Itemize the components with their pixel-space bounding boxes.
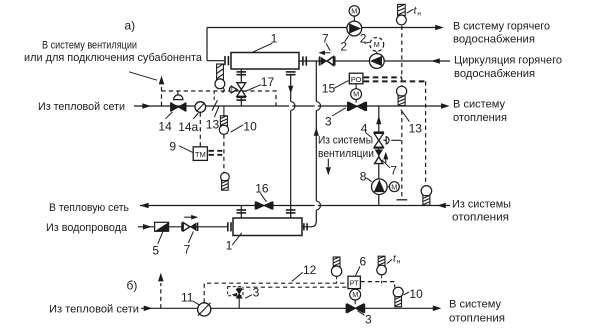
svg-text:а): а): [125, 18, 136, 32]
regulator 15 (PO box): [349, 73, 363, 84]
wire: heater-2 top-right port stub: [290, 206, 292, 219]
wire: section b main line (y=308.3): [141, 307, 433, 309]
svg-text:Из тепловой сети: Из тепловой сети: [38, 101, 125, 113]
svg-text:или для подключения субабонент: или для подключения субабонента: [24, 52, 203, 64]
wire: dashed branch up (section b): [160, 283, 162, 308]
svg-text:16: 16: [255, 182, 269, 196]
pump 2a (circulation) with dashed motor: [370, 38, 384, 52]
node: up arrow on riser (from heater-2): [314, 127, 319, 135]
wire: dashed outdoor-sensor impulse line (x=401.8): [401, 26, 403, 86]
thermometer (left of heater-1): [217, 64, 224, 80]
node: arrow to heating system (section b): [433, 306, 442, 312]
node: down arrow below ventilation text: [326, 167, 331, 175]
wire: heating-network supply main line (y=106): [134, 105, 442, 107]
node: down arrow on heater-1 return drop: [288, 86, 293, 94]
svg-text:3: 3: [253, 286, 260, 300]
node: arrow from DHW circulation: [431, 58, 440, 64]
orifice 14a: [195, 102, 206, 113]
node: flange above valve 4: [374, 131, 384, 133]
node: up arrow on dashed branch (section b): [158, 273, 164, 282]
svg-text:отопления: отопления: [453, 112, 507, 124]
water meter 5: [155, 222, 169, 231]
stem to valve 3: [355, 100, 357, 103]
svg-text:7: 7: [322, 31, 329, 45]
actuator stem regulator 15: [355, 84, 357, 89]
svg-text:М: М: [353, 90, 359, 99]
svg-text:М: М: [351, 7, 357, 16]
valve 14 (pressure regulator) with diaphragm: [170, 102, 172, 111]
node: flange on heater-2 top-left: [237, 209, 247, 211]
valve 3 (heating control valve): [347, 102, 349, 111]
thermometer (supply, in dashed loop): [220, 116, 227, 126]
wire: return line to heating network (y=205.5): [140, 205, 450, 207]
svg-text:В систему горячего: В систему горячего: [453, 21, 550, 33]
wire: valve 4 impulse connection to dashed line: [391, 139, 401, 141]
outdoor temperature sensor t_n: [398, 4, 406, 15]
svg-text:водоснабжения: водоснабжения: [454, 68, 535, 80]
leader to t_n label: [407, 9, 414, 13]
three-way valve 17: [237, 83, 246, 90]
wire: dashed impulse line of regulator 14: [162, 91, 277, 106]
wire: dashed branch to ventilation system (x=161.5): [161, 84, 163, 106]
node: sampling tick on supply main: [212, 100, 217, 111]
valve 3 (section b control valve): [345, 304, 347, 313]
wire: stub from small valve 3 to main line: [238, 298, 240, 308]
valve 4 (pressure regulator on branch): [374, 133, 383, 140]
wire: heater-1 left port stub: [207, 60, 224, 62]
regulator 6 (PT box): [348, 276, 360, 288]
node: arrow up to ventilation system: [159, 76, 165, 85]
wire: DHW supply top line (y=27.5): [207, 27, 436, 29]
svg-text:10: 10: [409, 287, 423, 301]
svg-text:отопления: отопления: [452, 212, 509, 224]
svg-text:ТМ: ТМ: [195, 150, 206, 159]
wire: stem to valve 3 (section b): [354, 300, 356, 304]
check valve 7 (cold water): [181, 223, 183, 232]
motor actuator of valve 3: [351, 89, 362, 100]
svg-text:РО: РО: [351, 75, 362, 84]
svg-text:н: н: [417, 11, 421, 18]
wire: hop of return drop pipe over supply main: [289, 101, 292, 110]
svg-text:2: 2: [340, 40, 347, 54]
svg-text:М: М: [352, 290, 358, 299]
thermometer (return, to heat meter): [221, 173, 230, 182]
node: flow arrow on supply main after inlet text: [142, 103, 151, 109]
svg-text:Циркуляция горячего: Циркуляция горячего: [454, 55, 562, 67]
svg-text:13: 13: [409, 121, 423, 135]
wire: hop of riser over supply main: [315, 101, 318, 110]
svg-text:Из системы: Из системы: [452, 199, 511, 211]
wire: bold double dashes from heat meter: [209, 150, 223, 152]
node: impulse line terminator: [397, 199, 408, 201]
svg-text:М: М: [391, 182, 397, 191]
svg-text:н: н: [397, 259, 401, 266]
wire: branch with valve 4 / check valve / pump 8 (x=378.8): [378, 106, 380, 206]
wire: heater-2 right port elbow: [302, 222, 316, 227]
node: arrow to heating network: [140, 203, 149, 209]
node: up arrow on valve-4 branch: [376, 116, 381, 124]
svg-text:9: 9: [169, 140, 176, 154]
svg-text:14а: 14а: [178, 120, 198, 134]
svg-text:РТ: РТ: [350, 279, 359, 288]
svg-text:В тепловую сеть: В тепловую сеть: [49, 202, 129, 214]
wire: bold double dashes from regulator 15 (upper): [364, 76, 402, 78]
wire: leader line from subscriber text: [129, 72, 157, 80]
wire: dashed impulse line below supply main to terminator: [401, 111, 403, 198]
wire: heater-1 bottom-left branch through valve 17 to supply main: [240, 69, 242, 106]
pump 2 (DHW supply) with motor: [349, 6, 359, 16]
pump 8 with motor: [372, 179, 388, 195]
node: flange on heater-2 top-right: [286, 209, 296, 211]
thermometer (supply, section b): [333, 257, 340, 267]
wire: dashed line from orifice 14a to heat meter: [199, 113, 201, 147]
node: flange at heater-2 left port: [227, 222, 229, 231]
svg-text:14: 14: [158, 120, 172, 134]
svg-text:15: 15: [322, 81, 336, 95]
wire: riser from heater-2 outlet to circulation junction (x=316.3): [315, 61, 317, 222]
heat exchanger 1 (upper stage): [231, 53, 299, 70]
node: flange below valve 17: [237, 96, 247, 98]
heat meter 9 (TM box): [193, 147, 207, 161]
svg-text:11: 11: [181, 290, 194, 304]
node: small arrow above check valve 7 on water line: [184, 216, 192, 218]
thermometer (heating return): [421, 186, 432, 197]
node: flange at heater-1 left port: [224, 56, 226, 65]
svg-text:Из водопровода: Из водопровода: [46, 222, 128, 234]
wire: dashed control line from elevator 11: [204, 283, 348, 302]
node: arrow to DHW system: [435, 25, 444, 31]
outdoor sensor t_n (section b): [378, 256, 385, 266]
node: arrow on cold water inlet: [143, 224, 152, 230]
wire: stem t_n to impulse line: [381, 275, 383, 283]
svg-text:5: 5: [152, 243, 159, 257]
thermometer (heating supply): [397, 86, 407, 96]
wire: dashed sensor line between thermometers to heat meter: [223, 135, 225, 173]
svg-text:М: М: [374, 40, 380, 49]
svg-text:7: 7: [184, 243, 191, 257]
svg-text:Из системы: Из системы: [318, 134, 373, 146]
svg-text:В систему: В систему: [449, 299, 501, 311]
svg-text:Из тепловой сети: Из тепловой сети: [49, 303, 139, 315]
svg-text:отопления: отопления: [449, 313, 505, 325]
motor actuator of valve 3 (section b): [350, 289, 361, 300]
svg-text:17: 17: [261, 75, 275, 89]
wire: stem thermometer to impulse line: [336, 276, 338, 283]
svg-text:В систему вентиляции: В систему вентиляции: [42, 40, 137, 52]
node: arrow from heating system return: [437, 203, 446, 209]
svg-text:б): б): [127, 278, 138, 292]
wire: dashed line PT to thermometer 10: [360, 282, 394, 288]
svg-text:1: 1: [226, 238, 233, 252]
elevator 11: [198, 303, 211, 316]
svg-text:3: 3: [325, 115, 332, 129]
safety valve 3 (small) in dashed box: [228, 287, 243, 296]
svg-text:10: 10: [243, 119, 257, 133]
check valve 7 (on branch): [375, 150, 383, 157]
wire: short line below ventilation text: [327, 159, 329, 168]
heat exchanger 1 (lower stage): [233, 218, 302, 236]
wire: bold double dashes from regulator 15 (lower): [364, 80, 425, 82]
svg-text:водоснабжения: водоснабжения: [453, 34, 535, 46]
wire: heater-1 bottom-right return drop pipe: [290, 75, 292, 206]
svg-text:7: 7: [390, 164, 397, 178]
node: flange on heater-1 bottom-left: [237, 71, 247, 73]
wire: cold water inlet line (y=226.8): [138, 226, 227, 228]
svg-text:12: 12: [303, 263, 317, 277]
svg-text:3: 3: [365, 313, 372, 327]
wire: dashed lower impulse line to PT: [246, 286, 348, 288]
svg-text:6: 6: [360, 255, 367, 269]
svg-text:В систему: В систему: [453, 99, 505, 111]
valve 16 (bypass): [255, 202, 257, 210]
wire: dashed return-sensor impulse line (x=425.6): [425, 81, 427, 185]
svg-text:8: 8: [360, 170, 367, 184]
node: arrow to heating system: [441, 103, 450, 109]
check valve 7 (top, at heater-1 outlet): [319, 56, 321, 65]
wire: circulation line from heater-1 right port to right edge: [299, 60, 450, 62]
node: flow arrow on section b inlet: [144, 306, 153, 312]
svg-text:13: 13: [206, 118, 220, 132]
svg-text:вентиляции: вентиляции: [318, 148, 374, 160]
node: flange at heater-1 right port: [302, 56, 304, 65]
wire: heater-2 top-left port stub: [240, 206, 242, 219]
node: flange on heater-1 bottom-right: [286, 71, 296, 73]
node: flange at heater-2 right port: [303, 223, 305, 230]
node: up arrow beside check valve 7: [385, 158, 387, 163]
wire: left riser from DHW line to heater-1 left port: [206, 28, 208, 61]
wire: sensor stem on supply main (x=223.9): [223, 106, 225, 116]
thermometer 10 (section b): [393, 287, 403, 297]
wire: hop of riser over return line: [315, 201, 318, 210]
wire: valve 14 actuator stem: [177, 91, 179, 100]
